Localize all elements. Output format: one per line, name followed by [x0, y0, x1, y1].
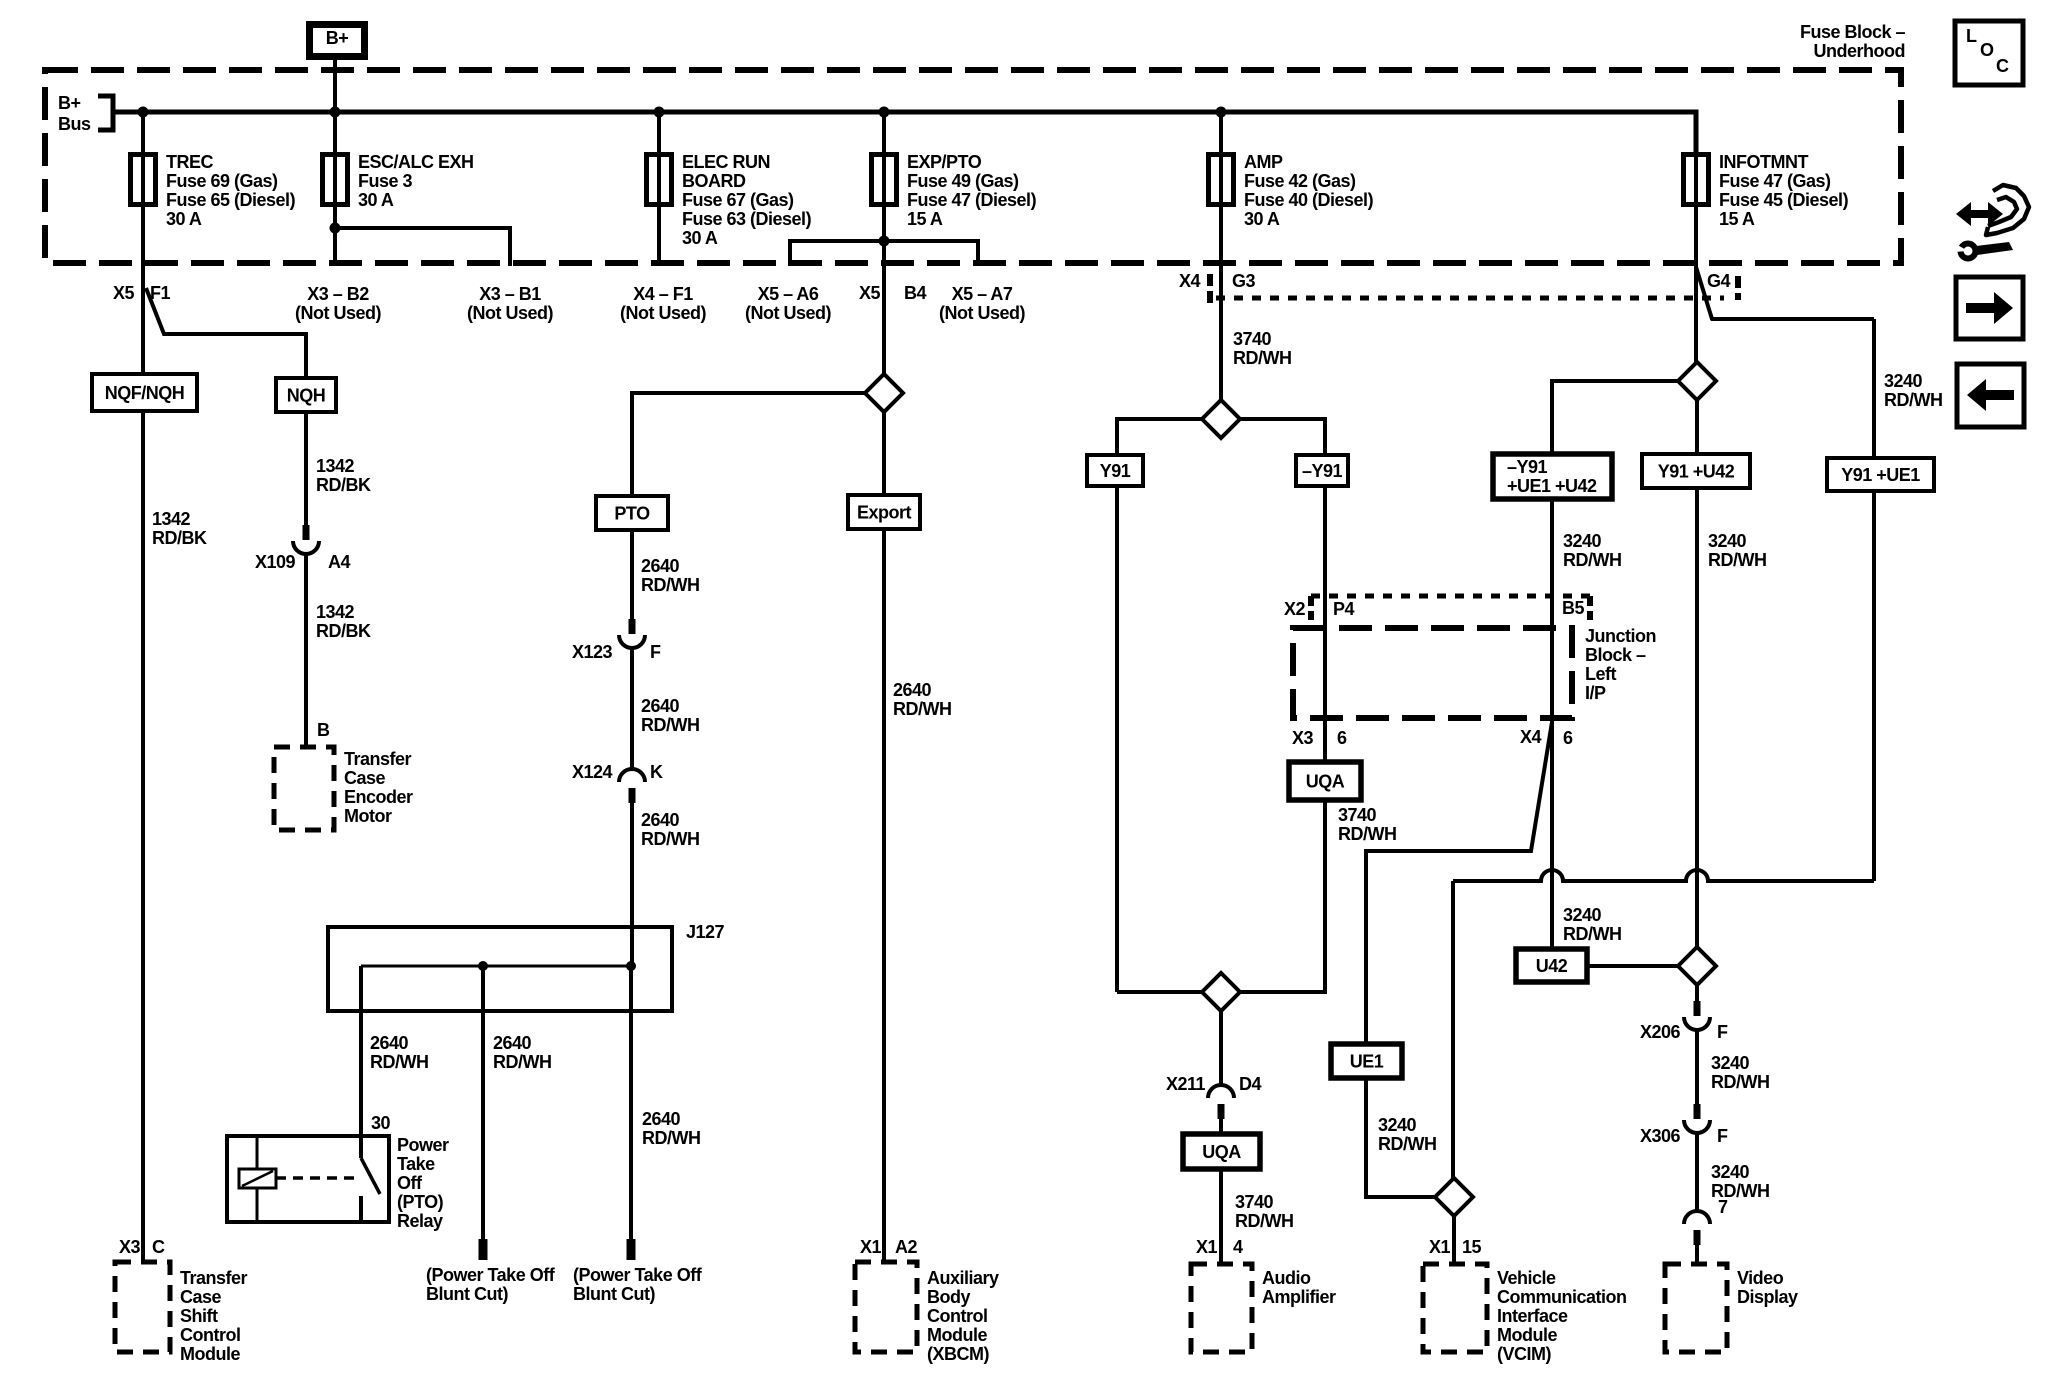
- svg-text:1342: 1342: [316, 456, 355, 476]
- junction dot bus-AMP: [1216, 107, 1227, 118]
- wire ESC fuse to X3-B2: [333, 204, 337, 266]
- svg-text:(XBCM): (XBCM): [927, 1344, 989, 1364]
- option box PTO: [596, 496, 668, 530]
- svg-text:+UE1 +U42: +UE1 +U42: [1507, 476, 1597, 496]
- svg-text:X5 – A6: X5 – A6: [758, 284, 819, 304]
- svg-text:2640: 2640: [641, 556, 680, 576]
- wire X206 to X306: [1695, 1030, 1699, 1104]
- wire NQH down: [304, 412, 308, 525]
- wire connector to Video Display: [1695, 1245, 1699, 1264]
- wire G4 diamond to -Y91+UE1+U42: [1552, 381, 1678, 454]
- wire J127 to blunt cut 1: [481, 966, 485, 1240]
- svg-text:Block –: Block –: [1585, 645, 1646, 665]
- wire Y91 down: [1115, 486, 1119, 992]
- connector strip X4/G3 to G4 dashed: [1207, 274, 1213, 303]
- svg-text:15 A: 15 A: [907, 209, 943, 229]
- svg-text:Fuse 63 (Diesel): Fuse 63 (Diesel): [682, 209, 812, 229]
- wire EXP fuse down: [882, 204, 886, 375]
- fuse INFOTMNT Fuse 47/45 15A: [1694, 154, 1698, 205]
- svg-text:X1: X1: [1429, 1237, 1451, 1257]
- svg-text:I/P: I/P: [1585, 683, 1606, 703]
- svg-text:X5 – A7: X5 – A7: [952, 284, 1013, 304]
- svg-text:Fuse 3: Fuse 3: [358, 171, 413, 191]
- wire J127 to relay pin 30: [359, 966, 363, 1136]
- connector X124 pin K: [619, 769, 645, 782]
- module Audio Amplifier: [1191, 1264, 1252, 1352]
- wire B+ to bus: [333, 60, 337, 110]
- wire Y91+U42 down video column: [1695, 488, 1699, 947]
- svg-text:3240: 3240: [1708, 531, 1747, 551]
- svg-text:Audio: Audio: [1262, 1268, 1311, 1288]
- wire EXP diamond to Export: [882, 411, 886, 495]
- svg-text:K: K: [650, 762, 663, 782]
- node B+ Bus bracket: [98, 96, 113, 130]
- svg-text:NQH: NQH: [287, 386, 326, 406]
- blunt cut terminal 2: [627, 1239, 636, 1260]
- svg-text:Fuse 40 (Diesel): Fuse 40 (Diesel): [1244, 190, 1374, 210]
- wire Y91 to splice: [1117, 990, 1202, 994]
- svg-text:Fuse 45 (Diesel): Fuse 45 (Diesel): [1719, 190, 1849, 210]
- svg-text:(PTO): (PTO): [397, 1192, 444, 1212]
- svg-text:Encoder: Encoder: [344, 787, 413, 807]
- svg-text:RD/BK: RD/BK: [152, 528, 207, 548]
- option box NQF/NQH: [92, 374, 197, 411]
- wire -Y91 down through junction block: [1323, 486, 1327, 762]
- relay coil: [239, 1169, 276, 1188]
- connector video display pin 7: [1684, 1211, 1710, 1224]
- svg-text:(Power Take Off: (Power Take Off: [573, 1265, 703, 1285]
- svg-text:D4: D4: [1239, 1074, 1261, 1094]
- svg-text:RD/WH: RD/WH: [370, 1052, 429, 1072]
- fuse EXP/PTO Fuse 49/47 15A: [882, 154, 886, 205]
- svg-text:Fuse 49 (Gas): Fuse 49 (Gas): [907, 171, 1019, 191]
- option box Y91 +U42: [1642, 454, 1750, 488]
- wire diamond to VCIM: [1452, 1216, 1456, 1264]
- option box -Y91 +UE1 +U42: [1493, 454, 1612, 499]
- svg-text:(Not Used): (Not Used): [295, 303, 381, 323]
- wire INFOTMNT fuse down through G4: [1694, 204, 1698, 364]
- svg-text:RD/BK: RD/BK: [316, 475, 371, 495]
- svg-text:X211: X211: [1166, 1074, 1206, 1094]
- svg-text:F: F: [1717, 1022, 1728, 1042]
- wire UE1 to VCIM diamond: [1366, 1078, 1434, 1197]
- svg-text:RD/WH: RD/WH: [1338, 824, 1397, 844]
- connector X123 pin F: [629, 619, 636, 634]
- svg-text:ESC/ALC EXH: ESC/ALC EXH: [358, 152, 474, 172]
- svg-text:Fuse 69 (Gas): Fuse 69 (Gas): [166, 171, 278, 191]
- svg-text:L: L: [1966, 26, 1977, 46]
- wire U42 to video diamond: [1587, 964, 1678, 968]
- relay switch contact 30: [359, 1136, 363, 1158]
- svg-text:Motor: Motor: [344, 806, 392, 826]
- svg-text:Fuse 67 (Gas): Fuse 67 (Gas): [682, 190, 794, 210]
- svg-text:X2: X2: [1284, 599, 1306, 619]
- svg-text:PTO: PTO: [614, 504, 650, 524]
- svg-text:RD/WH: RD/WH: [893, 699, 952, 719]
- svg-text:RD/WH: RD/WH: [641, 575, 700, 595]
- svg-text:30 A: 30 A: [166, 209, 202, 229]
- svg-text:Module: Module: [927, 1325, 987, 1345]
- svg-text:3240: 3240: [1563, 905, 1602, 925]
- svg-text:Video: Video: [1737, 1268, 1784, 1288]
- svg-text:Y91 +UE1: Y91 +UE1: [1841, 465, 1920, 485]
- svg-text:X3 – B2: X3 – B2: [307, 284, 369, 304]
- svg-text:Body: Body: [927, 1287, 970, 1307]
- svg-text:Fuse 47 (Diesel): Fuse 47 (Diesel): [907, 190, 1037, 210]
- wire -Y91+UE1+U42 down to junction block: [1550, 499, 1554, 596]
- svg-text:Power: Power: [397, 1135, 449, 1155]
- fuse block dashed border (Fuse Block - Underhood): [45, 70, 1901, 263]
- svg-text:Interface: Interface: [1497, 1306, 1568, 1326]
- svg-text:X5: X5: [113, 283, 135, 303]
- option box UE1: [1331, 1044, 1402, 1078]
- junction dot J127 a: [478, 961, 488, 971]
- wire B5 through junction block: [1550, 596, 1554, 718]
- svg-text:Off: Off: [397, 1173, 423, 1193]
- svg-text:3240: 3240: [1378, 1115, 1417, 1135]
- svg-text:(Not Used): (Not Used): [620, 303, 706, 323]
- svg-text:2640: 2640: [493, 1033, 532, 1053]
- fuse ELEC RUN BOARD Fuse 67/63 30A: [657, 154, 661, 205]
- relay switch arm: [361, 1158, 380, 1194]
- svg-text:Blunt Cut): Blunt Cut): [426, 1284, 508, 1304]
- svg-text:Y91 +U42: Y91 +U42: [1658, 462, 1735, 482]
- svg-text:BOARD: BOARD: [682, 171, 746, 191]
- module Transfer Case Encoder Motor: [274, 747, 334, 830]
- svg-text:RD/BK: RD/BK: [316, 621, 371, 641]
- wire X211 to UQA: [1219, 1119, 1223, 1134]
- svg-text:1342: 1342: [316, 602, 355, 622]
- svg-text:3240: 3240: [1563, 531, 1602, 551]
- svg-text:–Y91: –Y91: [1507, 457, 1548, 477]
- wire bus to ELEC fuse: [657, 112, 661, 154]
- svg-text:X4 – F1: X4 – F1: [633, 284, 693, 304]
- svg-text:U42: U42: [1536, 956, 1568, 976]
- junction dot EXP branch: [879, 236, 890, 247]
- blunt cut terminal 1: [479, 1239, 488, 1260]
- svg-text:2640: 2640: [642, 1109, 681, 1129]
- svg-text:A4: A4: [328, 552, 350, 572]
- svg-text:Control: Control: [927, 1306, 987, 1326]
- splice pack J127 box: [328, 927, 672, 1011]
- wire branch down to Y91+UE1: [1872, 319, 1876, 458]
- svg-text:Module: Module: [180, 1344, 240, 1364]
- option box Y91: [1087, 455, 1143, 486]
- svg-text:RD/WH: RD/WH: [1378, 1134, 1437, 1154]
- svg-text:G4: G4: [1707, 271, 1731, 291]
- wire B+ bus: [113, 112, 1696, 154]
- splice diamond G4: [1678, 362, 1716, 400]
- svg-text:UE1: UE1: [1350, 1052, 1384, 1072]
- svg-text:RD/WH: RD/WH: [641, 715, 700, 735]
- svg-text:RD/WH: RD/WH: [1235, 1211, 1294, 1231]
- svg-text:RD/WH: RD/WH: [1563, 550, 1622, 570]
- svg-text:X1: X1: [860, 1237, 882, 1257]
- svg-text:X5: X5: [859, 283, 881, 303]
- svg-text:B: B: [317, 720, 330, 740]
- svg-text:X3 – B1: X3 – B1: [479, 284, 541, 304]
- wire X123 to X124: [630, 648, 634, 769]
- wire diamond to Y91: [1117, 419, 1202, 455]
- splice diamond VCIM: [1435, 1178, 1473, 1216]
- wire X306 to video connector: [1695, 1133, 1699, 1211]
- svg-text:6: 6: [1563, 728, 1573, 748]
- junction dot ESC branch: [330, 223, 341, 234]
- svg-text:30 A: 30 A: [358, 190, 394, 210]
- wire J127 internal bus: [361, 965, 632, 968]
- connector X306 pin F: [1694, 1104, 1701, 1119]
- svg-text:Auxiliary: Auxiliary: [927, 1268, 999, 1288]
- wire X124 to J127: [630, 803, 634, 966]
- wire G4 diamond to Y91+U42: [1695, 400, 1699, 454]
- svg-text:Case: Case: [344, 768, 386, 788]
- option box UQA upper: [1289, 762, 1361, 800]
- svg-text:A2: A2: [895, 1237, 917, 1257]
- junction dot J127 b: [626, 961, 636, 971]
- svg-text:Fuse 47 (Gas): Fuse 47 (Gas): [1719, 171, 1831, 191]
- svg-text:RD/WH: RD/WH: [1711, 1072, 1770, 1092]
- option box Y91+UE1: [1827, 458, 1934, 491]
- wire diamond to X206: [1695, 985, 1699, 1001]
- svg-text:(Not Used): (Not Used): [745, 303, 831, 323]
- wire bus to EXP fuse: [882, 112, 886, 154]
- option box NQH: [276, 378, 336, 412]
- svg-text:2640: 2640: [370, 1033, 409, 1053]
- wire diamond to PTO box: [632, 393, 865, 496]
- wire UQA down to splice: [1240, 800, 1325, 992]
- connector X109 pin A4: [303, 525, 310, 540]
- svg-text:15: 15: [1462, 1237, 1482, 1257]
- svg-text:30 A: 30 A: [1244, 209, 1280, 229]
- svg-text:Control: Control: [180, 1325, 240, 1345]
- svg-text:F: F: [650, 642, 661, 662]
- svg-text:Fuse 65 (Diesel): Fuse 65 (Diesel): [166, 190, 296, 210]
- wire TREC main down: [141, 266, 145, 1262]
- svg-text:Y91: Y91: [1100, 461, 1131, 481]
- svg-text:(Not Used): (Not Used): [467, 303, 553, 323]
- svg-text:UQA: UQA: [1202, 1142, 1241, 1162]
- option box UQA lower: [1183, 1134, 1260, 1169]
- svg-text:B+: B+: [326, 28, 349, 48]
- svg-text:30 A: 30 A: [682, 228, 718, 248]
- relay coil feed wire: [256, 1136, 259, 1169]
- wire F1 branch diagonal to NQH: [146, 288, 306, 378]
- junction dot bus-B+: [330, 107, 341, 118]
- icon data link arrows and wrench: [1954, 185, 2029, 259]
- svg-text:AMP: AMP: [1244, 152, 1283, 172]
- wire G4 diagonal branch: [1696, 267, 1874, 319]
- svg-text:RD/WH: RD/WH: [1708, 550, 1767, 570]
- svg-text:NQF/NQH: NQF/NQH: [105, 383, 185, 403]
- svg-text:2640: 2640: [641, 696, 680, 716]
- module Transfer Case Shift Control Module: [115, 1262, 170, 1352]
- relay PTO Relay box: [227, 1136, 389, 1222]
- relay coil to switch dashed link: [276, 1176, 357, 1180]
- svg-text:X3: X3: [1292, 728, 1314, 748]
- svg-text:Take: Take: [397, 1154, 435, 1174]
- svg-text:RD/WH: RD/WH: [641, 829, 700, 849]
- module Auxiliary Body Control Module XBCM: [855, 1262, 917, 1352]
- svg-text:Underhood: Underhood: [1814, 41, 1906, 61]
- icon LOC box: [1955, 21, 2023, 85]
- svg-text:Fuse Block –: Fuse Block –: [1800, 22, 1906, 42]
- module Video Display: [1665, 1264, 1727, 1352]
- wire EXP branch A6/A7: [790, 241, 978, 266]
- battery feed B+ symbol: [310, 25, 365, 57]
- wire X4-6 diagonal to UE1 branch: [1366, 722, 1552, 1044]
- svg-text:X306: X306: [1640, 1126, 1681, 1146]
- svg-text:F: F: [1717, 1126, 1728, 1146]
- wire VCIM riser with hops: [1453, 870, 1874, 881]
- junction block left IP dashed box: [1293, 628, 1572, 718]
- svg-text:X4: X4: [1179, 271, 1201, 291]
- svg-text:2640: 2640: [641, 810, 680, 830]
- svg-text:3240: 3240: [1711, 1162, 1750, 1182]
- svg-text:6: 6: [1337, 728, 1347, 748]
- svg-text:–Y91: –Y91: [1302, 461, 1343, 481]
- svg-text:B+: B+: [58, 93, 81, 113]
- svg-text:1342: 1342: [152, 509, 191, 529]
- svg-text:Left: Left: [1585, 664, 1617, 684]
- splice diamond audio: [1202, 973, 1240, 1011]
- svg-text:3240: 3240: [1884, 371, 1923, 391]
- svg-text:Blunt Cut): Blunt Cut): [573, 1284, 655, 1304]
- svg-text:4: 4: [1233, 1237, 1243, 1257]
- svg-text:Case: Case: [180, 1287, 222, 1307]
- svg-text:Bus: Bus: [58, 114, 91, 134]
- svg-text:X1: X1: [1196, 1237, 1218, 1257]
- svg-text:B4: B4: [904, 283, 926, 303]
- wire ELEC fuse to X4-F1: [657, 204, 661, 266]
- svg-text:30: 30: [371, 1113, 391, 1133]
- svg-text:3740: 3740: [1233, 329, 1272, 349]
- svg-text:7: 7: [1718, 1197, 1728, 1217]
- svg-text:Module: Module: [1497, 1325, 1557, 1345]
- svg-text:J127: J127: [686, 922, 725, 942]
- svg-text:RD/WH: RD/WH: [642, 1128, 701, 1148]
- svg-text:ELEC RUN: ELEC RUN: [682, 152, 770, 172]
- svg-text:15 A: 15 A: [1719, 209, 1755, 229]
- svg-text:Shift: Shift: [180, 1306, 218, 1326]
- svg-text:Amplifier: Amplifier: [1262, 1287, 1336, 1307]
- icon continue-left arrow box: [1957, 364, 2024, 427]
- relay switch lower contact: [359, 1196, 363, 1222]
- icon continue-right arrow box: [1956, 277, 2023, 339]
- splice diamond AMP: [1202, 400, 1240, 438]
- junction dot bus-EXP: [879, 107, 890, 118]
- wire diamond to -Y91: [1240, 419, 1325, 455]
- wire bus to TREC fuse: [141, 112, 145, 154]
- svg-text:Transfer: Transfer: [344, 749, 412, 769]
- svg-text:Vehicle: Vehicle: [1497, 1268, 1556, 1288]
- svg-text:RD/WH: RD/WH: [493, 1052, 552, 1072]
- junction dot bus-TREC: [138, 107, 149, 118]
- svg-text:(Power Take Off: (Power Take Off: [426, 1265, 556, 1285]
- svg-text:B5: B5: [1562, 598, 1584, 618]
- svg-text:F1: F1: [150, 283, 170, 303]
- svg-text:3740: 3740: [1338, 805, 1377, 825]
- wire TREC fuse to X5-F1: [141, 204, 145, 266]
- wire X109 to encoder motor: [304, 554, 308, 747]
- svg-text:TREC: TREC: [166, 152, 214, 172]
- wire bus to AMP fuse: [1219, 112, 1223, 154]
- splice diamond EXP: [865, 374, 903, 412]
- svg-text:3740: 3740: [1235, 1192, 1274, 1212]
- svg-text:G3: G3: [1232, 271, 1256, 291]
- svg-text:C: C: [152, 1237, 165, 1257]
- wire AMP fuse down through G3: [1219, 204, 1223, 402]
- svg-text:P4: P4: [1333, 599, 1355, 619]
- svg-text:Transfer: Transfer: [180, 1268, 248, 1288]
- fuse TREC Fuse 69/65 30A: [141, 154, 145, 205]
- svg-text:EXP/PTO: EXP/PTO: [907, 152, 982, 172]
- wire ESC branch to X3-B1: [335, 228, 510, 266]
- wire Export to XBCM: [882, 529, 886, 1262]
- svg-text:2640: 2640: [893, 680, 932, 700]
- svg-text:X4: X4: [1520, 727, 1542, 747]
- connector X211 pin D4: [1208, 1085, 1234, 1098]
- svg-text:INFOTMNT: INFOTMNT: [1719, 152, 1808, 172]
- fuse ESC/ALC EXH Fuse 3 30A: [333, 154, 337, 205]
- wire X4-6 straight to U42: [1550, 718, 1554, 949]
- svg-text:RD/WH: RD/WH: [1233, 348, 1292, 368]
- option box -Y91: [1296, 455, 1348, 486]
- svg-text:X123: X123: [572, 642, 613, 662]
- wire PTO down: [630, 530, 634, 619]
- svg-text:X3: X3: [119, 1237, 141, 1257]
- svg-text:RD/WH: RD/WH: [1884, 390, 1943, 410]
- connector X206 pin F: [1694, 1001, 1701, 1016]
- wire J127 to blunt cut 2: [629, 966, 633, 1240]
- wire UQA to Audio Amplifier: [1219, 1169, 1223, 1264]
- svg-text:(VCIM): (VCIM): [1497, 1344, 1551, 1364]
- svg-text:Junction: Junction: [1585, 626, 1656, 646]
- svg-text:Relay: Relay: [397, 1211, 443, 1231]
- junction dot bus-ELEC: [654, 107, 665, 118]
- svg-text:X109: X109: [255, 552, 296, 572]
- fuse AMP Fuse 42/40 30A: [1219, 154, 1223, 205]
- svg-text:X206: X206: [1640, 1022, 1681, 1042]
- svg-text:Communication: Communication: [1497, 1287, 1627, 1307]
- option box U42: [1516, 949, 1587, 982]
- svg-text:UQA: UQA: [1306, 772, 1345, 792]
- connector strip X2 P4 B5 dotted: [1311, 594, 1590, 599]
- svg-text:C: C: [1996, 56, 2009, 76]
- svg-text:Export: Export: [857, 503, 912, 523]
- splice diamond U42: [1678, 947, 1716, 985]
- svg-text:(Not Used): (Not Used): [939, 303, 1025, 323]
- module Vehicle Communication Interface Module VCIM: [1423, 1264, 1487, 1352]
- svg-text:RD/WH: RD/WH: [1563, 924, 1622, 944]
- wire Y91+UE1 down: [1872, 491, 1876, 881]
- wire splice to X211: [1219, 1011, 1223, 1085]
- option box Export: [848, 495, 920, 529]
- svg-text:X124: X124: [572, 762, 613, 782]
- svg-text:O: O: [1980, 40, 1994, 60]
- wire bus to ESC fuse: [333, 112, 337, 154]
- svg-text:Fuse 42 (Gas): Fuse 42 (Gas): [1244, 171, 1356, 191]
- svg-text:3240: 3240: [1711, 1053, 1750, 1073]
- svg-text:Display: Display: [1737, 1287, 1798, 1307]
